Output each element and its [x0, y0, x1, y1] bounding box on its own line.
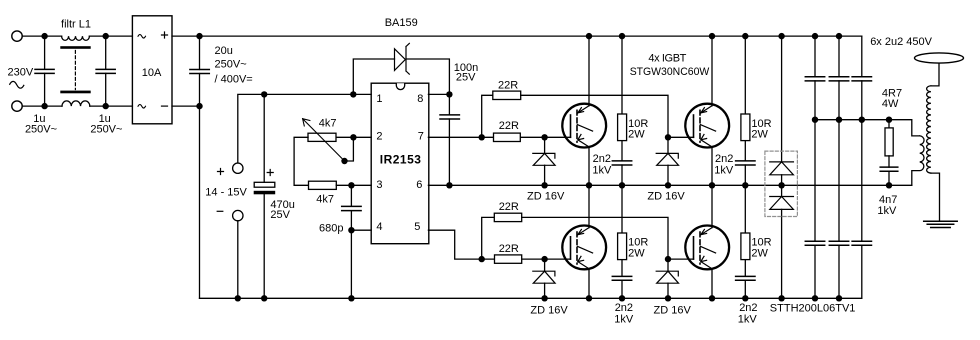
svg-text:6: 6 [416, 179, 422, 191]
wire: pin4 COM line [351, 229, 371, 231]
svg-text:ZD 16V: ZD 16V [654, 304, 692, 316]
svg-text:1kV: 1kV [592, 165, 612, 177]
capacitor column 3 of 2u2 bank [852, 36, 871, 298]
zener ZD 16V top right [656, 137, 678, 185]
svg-text:8: 8 [417, 93, 423, 105]
terminal: AC input N [12, 101, 22, 111]
AC tilde under 230V [9, 81, 24, 88]
capacitor: 1u 250V~ X-cap before choke [35, 36, 54, 106]
texts of left part [8, 17, 479, 235]
wire: DC+ top rail from rectifier to right end [172, 35, 862, 37]
capacitor column 2 of 2u2 bank [829, 36, 848, 298]
svg-text:2W: 2W [751, 128, 768, 140]
svg-text:2n2: 2n2 [615, 302, 633, 314]
zener ZD 16V bottom left [533, 259, 555, 298]
resistor 22R low lower [495, 255, 522, 263]
resistor 10R 2W top left [618, 114, 627, 141]
capacitor 680p [342, 185, 361, 298]
capacitor 100n 25V bootstrap [440, 94, 459, 185]
svg-text:22R: 22R [499, 120, 519, 132]
svg-text:680p: 680p [319, 223, 343, 235]
svg-text:4x IGBT: 4x IGBT [648, 52, 686, 64]
transistor IGBT top left [562, 104, 606, 148]
wire: bottom negative rail [200, 297, 862, 299]
wire: low side gate feed riser [482, 217, 495, 259]
wire: pin5 LO down to low side gate line [428, 230, 481, 259]
resistor 22R high lower [494, 133, 521, 141]
plus sign of 470u [267, 170, 273, 176]
rectifier minus mark [162, 105, 168, 107]
wire: pot left to 4k7 left series link [294, 137, 308, 185]
wire: from + terminal up to Vcc line [238, 94, 371, 163]
rectifier AC mark top [138, 35, 146, 39]
svg-text:22R: 22R [499, 243, 519, 255]
rectifier AC mark bottom [138, 105, 146, 109]
svg-text:filtr L1: filtr L1 [61, 19, 91, 31]
svg-text:250V~: 250V~ [215, 59, 247, 71]
svg-text:20u: 20u [215, 45, 233, 57]
wire: pot wiper loop [345, 137, 354, 161]
work coil winding [927, 86, 931, 173]
svg-text:6x 2u2 450V: 6x 2u2 450V [870, 36, 932, 48]
capacitor: 1u 250V~ X-cap after choke [96, 36, 115, 106]
svg-text:230V: 230V [8, 67, 34, 79]
svg-text:25V: 25V [456, 72, 476, 84]
wire: bottom AC line from choke to rectifier [90, 105, 133, 107]
svg-text:1: 1 [376, 93, 382, 105]
resistor 10R 2W bottom left [618, 233, 627, 260]
IC IR2153 body [371, 83, 429, 244]
wire: 4R7 damper top drop [888, 120, 890, 128]
transistor IGBT top right [685, 104, 729, 148]
inductor: choke L1 top winding [62, 36, 90, 40]
resistor 22R low upper [494, 213, 521, 221]
wire and capacitor 2n2 1kV top right [736, 141, 755, 186]
ground symbol [924, 221, 958, 227]
svg-text:1kV: 1kV [877, 205, 897, 217]
minus sign of aux supply [217, 210, 223, 212]
texts of IGBT section [498, 52, 772, 325]
svg-text:1kV: 1kV [614, 314, 634, 326]
svg-text:250V~: 250V~ [25, 123, 57, 135]
wire: top AC line from L terminal to choke [22, 35, 61, 37]
resistor 10R 2W bottom right [741, 233, 750, 260]
wire: bottom left IGBT emitter to bottom rail [588, 269, 590, 299]
wire: pin3 line from 4k7 to IC [336, 184, 371, 186]
wire: bottom AC line from N terminal to choke [22, 105, 62, 107]
svg-text:STGW30NC60W: STGW30NC60W [630, 66, 710, 78]
capacitor 4n7 1kV [880, 156, 898, 185]
wire: cap bank midpoint node line [815, 120, 920, 136]
svg-text:4k7: 4k7 [316, 194, 334, 206]
wire: bottom left IGBT collector from VS rail [588, 185, 590, 227]
wire and capacitor 2n2 1kV bottom right [736, 260, 755, 299]
wire: DC- from rectifier to bottom rail corner [172, 106, 200, 298]
svg-text:2W: 2W [751, 247, 768, 259]
terminal: AC input L [12, 31, 22, 41]
svg-text:2W: 2W [628, 128, 645, 140]
svg-text:1kV: 1kV [738, 314, 758, 326]
wire: STTH column from top rail [781, 36, 783, 162]
resistor 22R high upper [493, 91, 521, 99]
resistor 10R 2W top right [741, 114, 750, 141]
capacitor: 20u 250V~/400V= bus cap [190, 36, 209, 106]
svg-text:5: 5 [414, 221, 420, 233]
wire: top right IGBT emitter to VS rail [711, 147, 713, 185]
svg-text:22R: 22R [499, 201, 519, 213]
wire: top left IGBT collector [588, 36, 590, 106]
capacitor column 1 of 2u2 bank [805, 36, 824, 298]
svg-text:ZD 16V: ZD 16V [527, 190, 565, 202]
wire: top left IGBT emitter to VS rail [588, 147, 590, 185]
diode BA159 loop from Vcc to pin8 [353, 59, 449, 94]
svg-text:BA159: BA159 [385, 17, 418, 29]
zener ZD 16V bottom right [656, 259, 678, 298]
svg-text:STTH200L06TV1: STTH200L06TV1 [770, 303, 856, 315]
resistor 4R7 4W [885, 128, 893, 156]
wire: VS rail pin6 to output transformer [428, 184, 911, 186]
potentiometer 4k7 wiper arrow [303, 119, 345, 161]
wire: high upper 22R to right IGBT gate [521, 95, 668, 137]
wire and capacitor 2n2 1kV top left [612, 141, 631, 186]
terminal: aux supply - [233, 210, 243, 220]
wire: pin8 to bootstrap node [428, 93, 449, 95]
svg-text:2n2: 2n2 [593, 153, 611, 165]
wire: low upper 22R to right IGBT gate [522, 217, 668, 259]
junction dots right section [778, 33, 892, 302]
zener ZD 16V top left [533, 137, 555, 185]
svg-text:2n2: 2n2 [739, 302, 757, 314]
junction dots left section [41, 33, 452, 302]
svg-text:4: 4 [376, 221, 382, 233]
wire: bottom right IGBT emitter to bottom rail [711, 269, 713, 299]
wire: from - terminal down to bottom rail [237, 221, 239, 298]
diode STTH lower [770, 185, 794, 298]
svg-text:10A: 10A [142, 67, 162, 79]
svg-text:2W: 2W [628, 247, 645, 259]
IC notch [396, 83, 404, 89]
svg-text:ZD 16V: ZD 16V [530, 304, 568, 316]
terminal: aux supply + [233, 163, 243, 173]
diode STTH upper [770, 162, 794, 185]
workpiece ellipse above coil [915, 53, 964, 63]
wire and capacitor 2n2 1kV bottom left [612, 260, 631, 299]
wire: high side gate feed riser [482, 95, 493, 137]
junction dots IGBT section [479, 33, 749, 302]
wire: top right IGBT collector [711, 36, 713, 106]
wire: low side gate line to left IGBT [482, 258, 571, 260]
svg-text:2n2: 2n2 [715, 153, 733, 165]
rectifier plus mark [162, 32, 168, 38]
resistor 4k7 body [309, 181, 337, 189]
snubber bottom left: wire from VS rail [621, 185, 623, 233]
wire: pin2 line to pot [336, 136, 371, 138]
dashed module box STTH200L06TV1 [765, 151, 798, 216]
svg-text:14 - 15V: 14 - 15V [205, 186, 247, 198]
snubber bottom right: wire from VS rail [744, 185, 746, 233]
wire: ellipse to work coil [931, 63, 939, 86]
wire: bottom right IGBT collector from VS rail [711, 185, 713, 227]
potentiometer 4k7 body [308, 133, 336, 141]
svg-text:7: 7 [418, 130, 424, 142]
diode BA159 symbol [395, 43, 410, 74]
svg-text:/ 400V=: / 400V= [215, 73, 253, 85]
bridge rectifier 10A box [132, 16, 172, 124]
svg-text:3: 3 [376, 179, 382, 191]
snubber top left: wire from top rail [621, 36, 623, 114]
svg-text:250V~: 250V~ [90, 124, 122, 136]
svg-text:4W: 4W [882, 98, 899, 110]
wire: gate line right bottom IGBT [668, 258, 694, 260]
transistor IGBT bottom left [562, 226, 606, 270]
svg-text:1kV: 1kV [714, 165, 734, 177]
svg-text:2: 2 [376, 130, 382, 142]
inductor: choke L1 bottom winding [62, 101, 90, 106]
wire: top AC line from choke to rectifier [89, 35, 132, 37]
texts of right section [770, 36, 933, 315]
capacitor: 470u 25V electrolytic [254, 94, 276, 298]
svg-text:ZD 16V: ZD 16V [647, 190, 685, 202]
snubber top right: wire from top rail [744, 36, 746, 114]
wire: gate line right top IGBT [668, 136, 694, 138]
svg-text:22R: 22R [498, 80, 518, 92]
transformer primary winding [912, 136, 924, 185]
choke L1 core bars and coupling dashes [60, 46, 90, 93]
wire: pin7 HO gate line to left IGBT [428, 136, 570, 138]
svg-text:4k7: 4k7 [319, 118, 337, 130]
wire: work coil to ground [931, 173, 940, 221]
svg-text:25V: 25V [270, 209, 290, 221]
plus sign of aux supply [218, 169, 224, 175]
svg-text:IR2153: IR2153 [380, 152, 422, 166]
transistor IGBT bottom right [685, 226, 729, 270]
